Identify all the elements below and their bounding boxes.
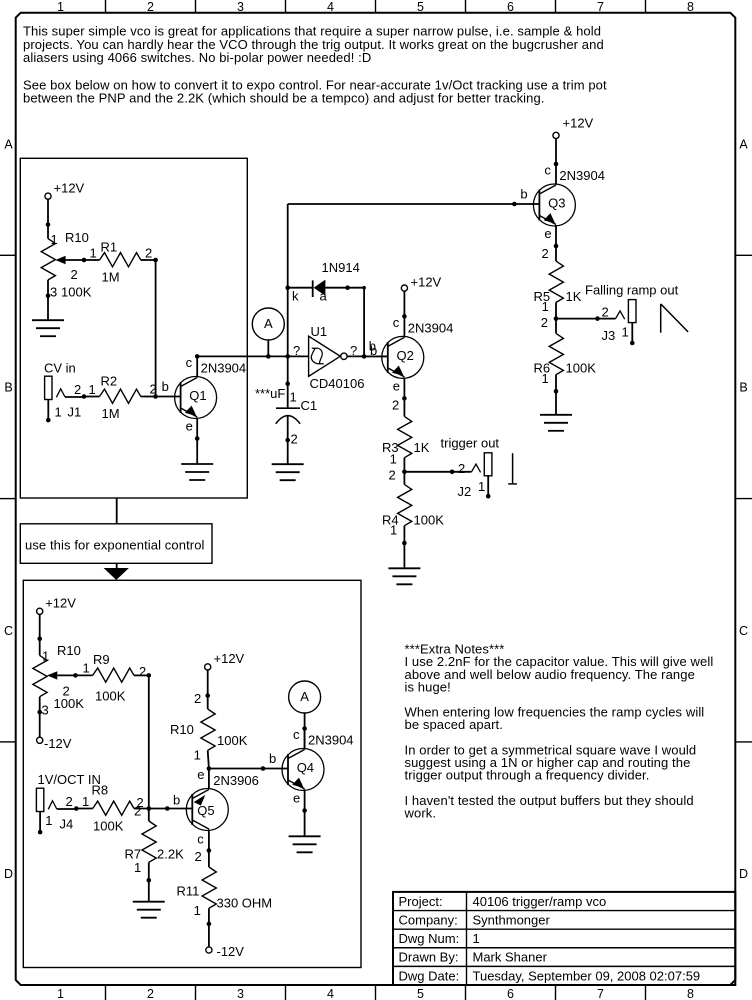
svg-text:work.: work. <box>404 805 437 820</box>
svg-text:b: b <box>173 793 180 808</box>
svg-text:C: C <box>4 624 13 638</box>
svg-text:e: e <box>393 379 400 394</box>
svg-text:2N3906: 2N3906 <box>213 773 259 788</box>
svg-text:Q1: Q1 <box>189 388 206 403</box>
svg-text:Falling ramp out: Falling ramp out <box>585 283 679 298</box>
svg-text:1N914: 1N914 <box>322 260 360 275</box>
svg-text:c: c <box>393 315 400 330</box>
svg-text:2: 2 <box>147 0 154 14</box>
svg-text:R1: R1 <box>101 240 118 255</box>
svg-text:1K: 1K <box>414 440 430 455</box>
svg-text:100K: 100K <box>93 818 124 833</box>
svg-text:100K: 100K <box>54 696 85 711</box>
svg-text:100K: 100K <box>95 689 126 704</box>
svg-text:1: 1 <box>57 0 64 14</box>
svg-text:Q5: Q5 <box>197 803 214 818</box>
svg-text:D: D <box>739 867 748 881</box>
svg-text:-12V: -12V <box>217 944 245 959</box>
svg-text:J1: J1 <box>68 404 82 419</box>
svg-text:2: 2 <box>66 794 73 809</box>
svg-text:6: 6 <box>507 0 514 14</box>
svg-text:-12V: -12V <box>44 736 72 751</box>
svg-text:Dwg Num:: Dwg Num: <box>399 931 460 946</box>
svg-text:1: 1 <box>473 931 480 946</box>
svg-text:4: 4 <box>327 0 334 14</box>
svg-text:1M: 1M <box>102 406 120 421</box>
svg-text:be spaced apart.: be spaced apart. <box>405 717 503 732</box>
svg-text:R2: R2 <box>101 374 118 389</box>
svg-text:U1: U1 <box>311 324 328 339</box>
svg-text:2: 2 <box>392 398 399 413</box>
svg-text:b: b <box>520 186 527 201</box>
svg-text:CD40106: CD40106 <box>310 376 365 391</box>
svg-text:7: 7 <box>597 987 604 1000</box>
svg-text:3: 3 <box>237 987 244 1000</box>
svg-text:e: e <box>186 419 193 434</box>
svg-text:trigger out: trigger out <box>441 436 500 451</box>
svg-text:Mark Shaner: Mark Shaner <box>473 950 548 965</box>
svg-text:2: 2 <box>389 467 396 482</box>
svg-text:Q3: Q3 <box>548 195 565 210</box>
svg-text:R10: R10 <box>170 722 194 737</box>
svg-text:c: c <box>544 162 551 177</box>
svg-text:1: 1 <box>390 451 397 466</box>
svg-text:2: 2 <box>71 267 78 282</box>
svg-text:2: 2 <box>134 803 141 818</box>
svg-text:J2: J2 <box>458 484 472 499</box>
svg-text:a: a <box>320 289 328 304</box>
svg-text:5: 5 <box>417 0 424 14</box>
svg-text:1: 1 <box>194 903 201 918</box>
svg-text:2: 2 <box>542 246 549 261</box>
svg-text:100K: 100K <box>566 360 597 375</box>
svg-text:Dwg Date:: Dwg Date: <box>399 968 460 983</box>
svg-text:1M: 1M <box>102 270 120 285</box>
svg-text:4: 4 <box>327 987 334 1000</box>
svg-text:2: 2 <box>541 315 548 330</box>
svg-text:use this for exponential contr: use this for exponential control <box>25 538 205 553</box>
svg-text:2: 2 <box>458 461 465 476</box>
svg-text:1: 1 <box>57 987 64 1000</box>
svg-text:2: 2 <box>139 664 146 679</box>
svg-text:aliasers using 4066 switches.: aliasers using 4066 switches. No bi-pola… <box>23 50 371 65</box>
svg-text:2: 2 <box>145 246 152 261</box>
svg-text:c: c <box>293 727 300 742</box>
svg-text:R10: R10 <box>57 643 81 658</box>
svg-text:Q4: Q4 <box>297 760 314 775</box>
svg-text:2N3904: 2N3904 <box>559 168 605 183</box>
svg-text:+12V: +12V <box>45 596 76 611</box>
svg-text:1: 1 <box>542 371 549 386</box>
svg-text:b: b <box>269 751 276 766</box>
svg-text:J4: J4 <box>60 817 74 832</box>
svg-text:1: 1 <box>82 794 89 809</box>
svg-text:A: A <box>300 689 309 704</box>
svg-text:+12V: +12V <box>54 181 85 196</box>
svg-text:R10: R10 <box>65 230 89 245</box>
svg-text:1: 1 <box>89 382 96 397</box>
svg-text:1: 1 <box>42 648 49 663</box>
svg-text:Tuesday, September 09, 2008 02: Tuesday, September 09, 2008 02:07:59 <box>473 968 701 983</box>
svg-text:?: ? <box>293 343 300 358</box>
svg-text:between the PNP and the 2.2K (: between the PNP and the 2.2K (which shou… <box>23 91 545 106</box>
svg-text:b: b <box>162 379 169 394</box>
svg-text:1: 1 <box>83 661 90 676</box>
svg-text:B: B <box>4 381 12 395</box>
svg-text:C1: C1 <box>301 398 318 413</box>
svg-text:1: 1 <box>51 232 58 247</box>
svg-text:7: 7 <box>597 0 604 14</box>
svg-text:2: 2 <box>150 382 157 397</box>
svg-text:B: B <box>739 381 747 395</box>
svg-text:3: 3 <box>42 703 49 718</box>
svg-text:2: 2 <box>602 305 609 320</box>
svg-text:1: 1 <box>478 479 485 494</box>
svg-text:2N3904: 2N3904 <box>408 321 454 336</box>
svg-text:+12V: +12V <box>214 651 245 666</box>
svg-text:c: c <box>197 832 204 847</box>
svg-text:A: A <box>4 137 13 151</box>
svg-text:2: 2 <box>147 987 154 1000</box>
svg-text:is huge!: is huge! <box>405 679 451 694</box>
svg-text:6: 6 <box>507 987 514 1000</box>
svg-text:2: 2 <box>291 432 298 447</box>
svg-text:Synthmonger: Synthmonger <box>473 912 551 927</box>
svg-text:Q2: Q2 <box>397 348 414 363</box>
svg-text:2: 2 <box>195 849 202 864</box>
svg-text:1: 1 <box>90 246 97 261</box>
svg-text:2N3904: 2N3904 <box>308 733 354 748</box>
svg-text:R11: R11 <box>177 884 200 899</box>
svg-text:1: 1 <box>134 860 141 875</box>
svg-text:2N3904: 2N3904 <box>201 361 247 376</box>
svg-text:Project:: Project: <box>399 894 443 909</box>
svg-text:Company:: Company: <box>399 912 458 927</box>
svg-text:k: k <box>292 289 299 304</box>
svg-text:1: 1 <box>45 813 52 828</box>
svg-text:3: 3 <box>50 285 57 300</box>
svg-text:1: 1 <box>55 404 62 419</box>
svg-text:e: e <box>293 791 300 806</box>
svg-text:A: A <box>739 137 748 151</box>
svg-text:Drawn By:: Drawn By: <box>399 950 459 965</box>
svg-text:e: e <box>197 767 204 782</box>
svg-text:C: C <box>739 624 748 638</box>
svg-text:1K: 1K <box>566 289 582 304</box>
svg-text:2.2K: 2.2K <box>157 846 184 861</box>
svg-text:R9: R9 <box>93 652 110 667</box>
svg-text:J3: J3 <box>602 328 616 343</box>
svg-text:D: D <box>4 867 13 881</box>
svg-text:***uF: ***uF <box>255 386 285 401</box>
svg-text:1: 1 <box>542 299 549 314</box>
svg-text:1: 1 <box>194 748 201 763</box>
svg-text:8: 8 <box>687 0 694 14</box>
svg-text:100K: 100K <box>61 285 92 300</box>
svg-text:1: 1 <box>390 522 397 537</box>
svg-text:2: 2 <box>194 691 201 706</box>
svg-text:c: c <box>186 355 193 370</box>
svg-text:R8: R8 <box>92 783 109 798</box>
svg-text:?: ? <box>350 343 357 358</box>
svg-text:I haven't tested the output bu: I haven't tested the output buffers but … <box>405 793 694 808</box>
svg-text:1: 1 <box>622 324 629 339</box>
svg-text:trigger output through a frequ: trigger output through a frequency divid… <box>405 768 650 783</box>
svg-text:b: b <box>369 339 376 354</box>
svg-text:+12V: +12V <box>411 275 442 290</box>
svg-text:40106 trigger/ramp vco: 40106 trigger/ramp vco <box>473 894 607 909</box>
svg-text:2: 2 <box>74 382 81 397</box>
svg-text:3: 3 <box>237 0 244 14</box>
svg-text:100K: 100K <box>414 512 445 527</box>
svg-text:100K: 100K <box>217 733 248 748</box>
svg-text:5: 5 <box>417 987 424 1000</box>
svg-text:e: e <box>544 226 551 241</box>
svg-text:CV in: CV in <box>44 361 76 376</box>
svg-text:8: 8 <box>687 987 694 1000</box>
svg-text:330 OHM: 330 OHM <box>217 896 273 911</box>
svg-text:+12V: +12V <box>563 116 594 131</box>
svg-text:1: 1 <box>290 390 297 405</box>
svg-text:A: A <box>264 316 273 331</box>
